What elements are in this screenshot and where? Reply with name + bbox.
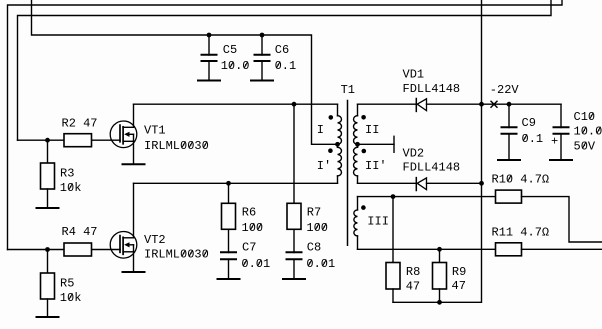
svg-text:47: 47 bbox=[452, 279, 466, 293]
resistor R2 bbox=[64, 134, 92, 147]
node junction R7 on drain line bbox=[292, 102, 297, 107]
terminal bar centre tap bbox=[393, 136, 395, 152]
svg-text:II: II bbox=[365, 123, 379, 137]
ground below C8 bbox=[283, 278, 305, 280]
svg-text:R11 4.7Ω: R11 4.7Ω bbox=[492, 226, 550, 240]
wire T1 winding I top lead bbox=[337, 104, 339, 116]
transistor VT2 bbox=[110, 232, 137, 259]
wire C9 top lead bbox=[508, 104, 510, 127]
polarity dot winding I bbox=[329, 115, 334, 120]
ground below C10 bbox=[550, 159, 572, 161]
ground below C7 bbox=[218, 278, 240, 280]
ground below VT2 bbox=[123, 271, 145, 273]
node junction T1 secondary centre tap bbox=[355, 142, 360, 147]
resistor R6 bbox=[222, 203, 236, 229]
wire winding III top line bbox=[358, 196, 496, 198]
wire T1 winding II top lead bbox=[357, 104, 359, 116]
wire C7 bottom lead bbox=[228, 259, 230, 279]
svg-text:C10: C10 bbox=[574, 110, 596, 124]
resistor R11 bbox=[496, 243, 522, 256]
svg-text:R10 4.7Ω: R10 4.7Ω bbox=[492, 173, 550, 187]
capacitor C5 bbox=[202, 54, 217, 56]
capacitor C7 bbox=[221, 251, 236, 253]
wire R2 to VT1 gate bbox=[92, 139, 121, 141]
capacitor C9 bbox=[502, 126, 517, 128]
ground below VT1 bbox=[123, 163, 145, 165]
wire -22V output branch bbox=[482, 103, 562, 105]
resistor R4 bbox=[64, 243, 92, 256]
wire R8 bottom lead bbox=[392, 289, 394, 302]
wire VD2 to rail bbox=[427, 182, 482, 184]
wire T1 winding I-prime bottom lead bbox=[337, 176, 339, 183]
winding I of T1 bbox=[338, 116, 342, 145]
diode VD2 bbox=[417, 178, 426, 190]
svg-text:R5: R5 bbox=[60, 277, 74, 291]
node junction R9 bottom bbox=[437, 300, 442, 305]
svg-text:IRLML0030: IRLML0030 bbox=[144, 139, 209, 153]
svg-text:C6: C6 bbox=[275, 43, 289, 57]
wire R7 top lead bbox=[293, 104, 295, 203]
slashed zero marks on labels bbox=[69, 62, 600, 299]
svg-text:C8: C8 bbox=[307, 240, 321, 254]
node junction C6 supply bbox=[260, 33, 265, 38]
svg-text:III: III bbox=[367, 214, 389, 228]
svg-text:0.01: 0.01 bbox=[306, 257, 335, 271]
resistor R10 bbox=[496, 190, 522, 203]
svg-text:10k: 10k bbox=[60, 181, 82, 195]
wire C8 bottom lead bbox=[293, 259, 295, 279]
node junction R5 gate tap bbox=[45, 247, 50, 252]
wire VT1 source lead bbox=[133, 141, 135, 164]
svg-text:-22V: -22V bbox=[490, 83, 520, 97]
svg-text:VT2: VT2 bbox=[144, 233, 166, 247]
wire T1 primary centre link bbox=[337, 144, 339, 147]
svg-text:T1: T1 bbox=[341, 83, 355, 97]
wire T1 winding III top lead bbox=[357, 197, 359, 210]
resistor R9 bbox=[433, 263, 447, 290]
node junction R3 gate tap bbox=[45, 138, 50, 143]
svg-text:47: 47 bbox=[406, 279, 420, 293]
diode VD1 bbox=[417, 99, 426, 111]
wire R3 bottom lead bbox=[47, 189, 49, 208]
wire VT2 gate row left bbox=[8, 249, 65, 251]
wire R7 to C8 bbox=[293, 229, 295, 252]
resistor R7 bbox=[287, 203, 301, 229]
ground below R5 bbox=[37, 316, 59, 318]
resistor R8 bbox=[386, 263, 400, 290]
node junction C5 supply bbox=[207, 33, 212, 38]
ground below C9 bbox=[498, 159, 520, 161]
svg-text:FDLL4148: FDLL4148 bbox=[403, 160, 461, 174]
svg-text:50V: 50V bbox=[574, 139, 596, 153]
svg-text:R8: R8 bbox=[406, 265, 420, 279]
svg-text:VT1: VT1 bbox=[144, 124, 166, 138]
wire R4 to VT2 gate bbox=[92, 249, 121, 251]
resistor R5 bbox=[41, 273, 55, 299]
wire R5 top lead bbox=[47, 250, 49, 274]
polarity dot winding II bbox=[361, 115, 366, 120]
polarity dot winding II-prime bbox=[362, 149, 367, 154]
wire input B top rail bbox=[18, 0, 552, 140]
wire C10 top lead bbox=[560, 104, 562, 127]
wire -22V vertical rail bbox=[393, 0, 482, 302]
wire R6 to C7 bbox=[228, 229, 230, 252]
wire C6 bottom lead bbox=[261, 61, 263, 81]
resistor R3 bbox=[41, 163, 55, 189]
svg-text:I': I' bbox=[317, 159, 331, 173]
capacitor C10 bbox=[554, 126, 569, 128]
wire R3 top lead bbox=[47, 140, 49, 163]
ground below C6 bbox=[251, 80, 273, 82]
svg-text:R6: R6 bbox=[242, 205, 256, 219]
wire C5 bottom lead bbox=[208, 61, 210, 81]
svg-text:+: + bbox=[551, 135, 558, 149]
wire VT1 gate row left bbox=[18, 139, 65, 141]
svg-text:R3: R3 bbox=[60, 167, 74, 181]
svg-text:R2 47: R2 47 bbox=[62, 116, 98, 130]
node junction R9 top bbox=[437, 247, 442, 252]
wire T1 winding II-prime bottom lead bbox=[357, 176, 359, 183]
svg-text:R4 47: R4 47 bbox=[62, 225, 98, 239]
wire C6 top lead bbox=[261, 35, 263, 55]
capacitor C6 bbox=[255, 54, 270, 56]
wire input A top rail bbox=[8, 0, 563, 250]
svg-text:C7: C7 bbox=[242, 240, 256, 254]
svg-text:C5: C5 bbox=[223, 43, 237, 57]
wire winding II-prime to VD2 bbox=[358, 182, 417, 184]
wire C10 bottom lead bbox=[560, 134, 562, 160]
winding I-prime of T1 bbox=[338, 147, 342, 176]
node junction T1 primary centre tap bbox=[335, 142, 340, 147]
wire T1 secondary centre link bbox=[357, 144, 359, 147]
svg-text:R9: R9 bbox=[452, 265, 466, 279]
svg-text:VD1: VD1 bbox=[403, 67, 425, 81]
svg-text:II': II' bbox=[365, 159, 387, 173]
svg-text:IRLML0030: IRLML0030 bbox=[144, 248, 209, 262]
winding II-prime of T1 bbox=[354, 147, 358, 176]
wire VT2 drain lead bbox=[133, 183, 135, 238]
node junction VD2 rail bbox=[479, 181, 484, 186]
wire C9 bottom lead bbox=[508, 134, 510, 160]
node junction C9 top bbox=[507, 102, 512, 107]
svg-text:100: 100 bbox=[242, 221, 264, 235]
svg-text:C9: C9 bbox=[522, 116, 536, 130]
node junction R6 on VT2 drain line bbox=[226, 181, 231, 186]
ground below C5 bbox=[198, 80, 220, 82]
wire C5 top lead bbox=[208, 35, 210, 55]
svg-text:I: I bbox=[317, 123, 324, 137]
svg-text:0.01: 0.01 bbox=[241, 257, 270, 271]
wire VT1 drain to T1 winding I bbox=[134, 103, 338, 105]
winding II of T1 bbox=[354, 116, 358, 145]
svg-text:R7: R7 bbox=[307, 205, 321, 219]
node -22V terminal X mark bbox=[491, 101, 497, 107]
svg-text:FDLL4148: FDLL4148 bbox=[403, 82, 461, 96]
wire winding II to VD1 bbox=[358, 103, 417, 105]
svg-text:100: 100 bbox=[306, 221, 328, 235]
transistor VT1 bbox=[110, 121, 137, 148]
wire R9 top lead bbox=[439, 249, 441, 262]
svg-text:10k: 10k bbox=[60, 291, 82, 305]
wire VD1 to rail bbox=[427, 103, 482, 105]
capacitor C8 bbox=[287, 251, 302, 253]
wire R8 top lead bbox=[392, 197, 394, 263]
wire VT1 drain lead bbox=[133, 104, 135, 127]
wire R6 top lead bbox=[228, 183, 230, 203]
node junction R8 top bbox=[391, 194, 396, 199]
polarity dot winding III bbox=[361, 205, 366, 210]
wire winding III bottom line bbox=[358, 248, 496, 250]
wire R11 output bbox=[522, 248, 602, 250]
wire R5 bottom lead bbox=[47, 299, 49, 317]
polarity dot winding I-prime bbox=[328, 148, 333, 153]
transformer T1 core bbox=[347, 101, 349, 246]
ground below R3 bbox=[37, 207, 59, 209]
svg-text:VD2: VD2 bbox=[403, 146, 425, 160]
wire R9 bottom lead bbox=[439, 289, 441, 302]
wire supply rail to C5 C6 and T1 centre tap bbox=[32, 0, 338, 144]
wire T1 secondary centre tap output bbox=[358, 143, 395, 145]
winding III of T1 bbox=[354, 210, 358, 236]
wire VT2 drain to T1 winding I-prime bbox=[134, 182, 338, 184]
wire T1 winding III bottom lead bbox=[357, 236, 359, 249]
node junction VD1 rail bbox=[479, 102, 484, 107]
wire VT2 source lead bbox=[133, 252, 135, 272]
wire R10 to step bbox=[522, 197, 602, 242]
